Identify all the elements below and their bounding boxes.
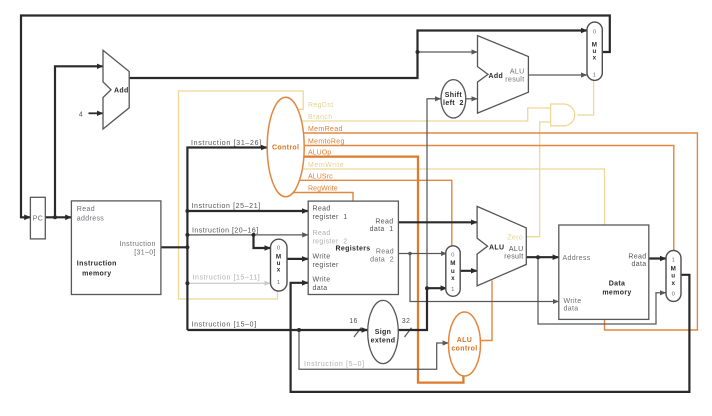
- svg-text:ALUOp: ALUOp: [308, 150, 332, 157]
- svg-text:Write: Write: [564, 298, 582, 305]
- svg-text:Address: Address: [563, 255, 591, 262]
- svg-text:Read: Read: [313, 206, 331, 213]
- svg-text:Read: Read: [375, 219, 393, 226]
- svg-text:u: u: [451, 268, 455, 275]
- svg-text:Read: Read: [77, 206, 95, 213]
- svg-text:4: 4: [79, 112, 83, 119]
- svg-text:data 2: data 2: [370, 257, 394, 264]
- svg-text:address: address: [77, 216, 105, 223]
- svg-text:x: x: [671, 280, 675, 287]
- svg-text:0: 0: [672, 292, 676, 298]
- svg-text:data: data: [631, 261, 646, 268]
- svg-text:left 2: left 2: [443, 100, 464, 107]
- svg-text:ALUSrc: ALUSrc: [308, 173, 333, 180]
- svg-text:0: 0: [593, 30, 597, 36]
- svg-text:1: 1: [593, 73, 597, 79]
- svg-text:Instruction: Instruction: [120, 241, 156, 248]
- svg-text:Instruction [5–0]: Instruction [5–0]: [304, 361, 365, 368]
- svg-text:PC: PC: [33, 216, 43, 223]
- svg-text:Add: Add: [489, 73, 504, 80]
- svg-text:x: x: [277, 267, 281, 274]
- svg-text:Branch: Branch: [308, 114, 333, 121]
- svg-text:data 1: data 1: [370, 226, 394, 233]
- svg-text:1: 1: [672, 258, 676, 264]
- svg-text:extend: extend: [371, 338, 396, 345]
- svg-text:M: M: [671, 266, 677, 273]
- svg-text:MemWrite: MemWrite: [308, 162, 344, 169]
- svg-text:Zero: Zero: [507, 235, 523, 242]
- svg-text:register: register: [313, 262, 339, 269]
- svg-text:Instruction: Instruction: [77, 261, 117, 268]
- svg-text:register 2: register 2: [313, 239, 348, 246]
- svg-text:32: 32: [402, 318, 411, 325]
- svg-text:data: data: [313, 285, 328, 292]
- svg-text:0: 0: [451, 253, 455, 259]
- svg-text:result: result: [504, 254, 523, 261]
- svg-text:Read: Read: [628, 254, 646, 261]
- svg-text:Write: Write: [313, 277, 331, 284]
- svg-text:Shift: Shift: [445, 92, 463, 99]
- svg-text:data: data: [564, 306, 579, 313]
- svg-text:ALU: ALU: [510, 69, 525, 76]
- svg-text:control: control: [451, 346, 477, 353]
- svg-text:MemRead: MemRead: [308, 126, 343, 133]
- svg-text:Read: Read: [313, 230, 331, 237]
- svg-text:Add: Add: [114, 88, 129, 95]
- svg-text:memory: memory: [82, 271, 111, 278]
- svg-text:Control: Control: [272, 145, 299, 152]
- svg-text:Instruction [15–11]: Instruction [15–11]: [193, 275, 261, 282]
- svg-text:M: M: [450, 260, 456, 267]
- svg-text:Sign: Sign: [375, 329, 392, 336]
- svg-text:1: 1: [277, 280, 281, 286]
- svg-text:0: 0: [277, 246, 281, 252]
- svg-text:Instruction [15–0]: Instruction [15–0]: [192, 322, 257, 329]
- svg-text:u: u: [671, 273, 675, 280]
- svg-text:16: 16: [349, 318, 358, 325]
- svg-text:register 1: register 1: [313, 214, 348, 221]
- svg-text:[31–0]: [31–0]: [134, 250, 156, 257]
- svg-text:x: x: [593, 55, 597, 62]
- svg-text:Instruction [31–26]: Instruction [31–26]: [191, 140, 262, 147]
- svg-text:MemtoReg: MemtoReg: [308, 139, 345, 146]
- svg-text:result: result: [505, 77, 524, 84]
- svg-text:ALU: ALU: [489, 245, 504, 252]
- svg-text:Data: Data: [609, 281, 626, 288]
- svg-text:memory: memory: [602, 290, 631, 297]
- svg-text:ALU: ALU: [509, 246, 524, 253]
- svg-text:Read: Read: [376, 249, 394, 256]
- svg-text:Registers: Registers: [335, 246, 370, 253]
- svg-text:ALU: ALU: [457, 337, 472, 344]
- svg-text:RegWrite: RegWrite: [308, 186, 338, 193]
- svg-text:x: x: [451, 275, 455, 282]
- svg-text:Write: Write: [313, 254, 331, 261]
- svg-text:Instruction [20–16]: Instruction [20–16]: [192, 228, 259, 235]
- svg-text:RegDst: RegDst: [308, 102, 334, 109]
- svg-text:1: 1: [451, 287, 455, 293]
- svg-text:Instruction [25–21]: Instruction [25–21]: [192, 203, 261, 210]
